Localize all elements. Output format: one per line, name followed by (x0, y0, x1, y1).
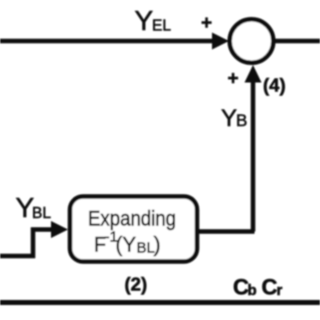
svg-text:B: B (236, 111, 247, 130)
svg-text:(2): (2) (125, 274, 148, 295)
wire: bottom horizontal separator line (0, 300, 320, 305)
wire: arrowhead up into adder bottom (245, 65, 262, 83)
svg-text:Y: Y (221, 105, 237, 132)
svg-text:Y: Y (135, 5, 154, 36)
block: Expanding F^-1(Y_BL) box (70, 197, 197, 262)
svg-text:+: + (201, 13, 212, 34)
adder U1 (summing junction circle) (230, 19, 274, 63)
svg-text:r: r (277, 282, 283, 299)
wire: box output to riser (197, 229, 255, 234)
svg-text:BL: BL (32, 205, 51, 222)
svg-text:+: + (228, 69, 239, 90)
svg-text:BL: BL (137, 240, 155, 257)
svg-text:Expanding: Expanding (88, 208, 176, 231)
wire: arrowhead into adder left (212, 33, 229, 50)
svg-text:b: b (248, 282, 257, 299)
wire: Y_BL input from left edge (0, 230, 52, 257)
wire: Y_B vertical riser (251, 81, 256, 232)
wire: arrowhead into Expanding box (51, 221, 68, 238)
wire: adder output to right edge (274, 39, 320, 44)
label F^-1(Y_BL) (line 2 in box) (94, 229, 161, 257)
svg-text:EL: EL (152, 18, 171, 35)
svg-text:): ) (154, 233, 161, 257)
svg-text:(4): (4) (263, 75, 286, 96)
svg-text:(Y: (Y (116, 233, 137, 257)
wire: Y_EL input line into adder (0, 39, 215, 44)
svg-text:C: C (262, 275, 278, 300)
